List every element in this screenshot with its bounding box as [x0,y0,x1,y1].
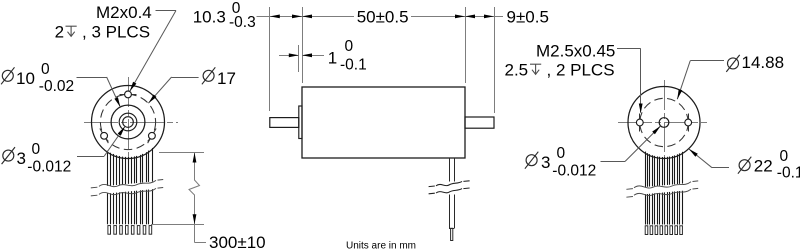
dim 10.3 arrows [270,15,280,19]
extension line shaft end [269,7,271,111]
svg-text:9±0.5: 9±0.5 [507,7,549,26]
svg-text:0: 0 [557,145,566,162]
left view bearing circle [119,113,137,131]
right view horizontal centerline [618,122,710,124]
extension line body rear face [465,7,467,83]
label dia 3 0/-0.012 (right) [526,155,537,166]
dim 10.3 line [257,16,303,18]
svg-text:M2.5x0.45: M2.5x0.45 [536,42,615,61]
left view lead wires (8) [107,151,109,225]
svg-text:-0.012: -0.012 [552,163,596,180]
right view bare wire tips [645,226,648,235]
leader dia 3 to shaft hole [77,156,104,158]
left view bolt circle (dia 17, dashed) [100,94,155,149]
right view M2.5 screw holes (2 plcs) [636,119,643,126]
left view vertical centerline [128,77,130,168]
side view wire break [435,182,463,194]
svg-text:Units are in mm: Units are in mm [346,241,416,250]
svg-text:-0.012: -0.012 [27,159,71,176]
leader M2x0.4 to top hole [156,10,177,12]
leader dia 10 to boss circle [77,77,107,79]
svg-text:22: 22 [754,157,773,176]
svg-text:0: 0 [345,38,354,55]
svg-text:50±0.5: 50±0.5 [357,7,409,26]
dim 1 arrows [289,53,299,57]
svg-text:M2x0.4: M2x0.4 [96,3,152,22]
svg-text:10.3: 10.3 [193,7,226,26]
leader dia 3 to center hole [601,161,626,163]
svg-text:-0.1: -0.1 [777,164,800,181]
300 dim line with break zigzag [189,153,200,225]
dim 50 arrows [302,15,312,19]
right view vertical centerline [664,80,666,178]
dim 9 line [465,16,494,18]
svg-text:2: 2 [55,23,64,42]
side view rear tube [465,117,494,128]
leader dia 17 to bolt circle [172,77,199,79]
extension line boss front face [298,45,300,72]
svg-text:14.88: 14.88 [742,53,785,72]
left view pilot boss (dia 10) [111,105,145,139]
leader dia 14.88 to bolt circle [690,60,724,62]
label dia 22 0/-0.1 [739,160,750,171]
left view shaft hole (dia 3) [123,117,134,128]
svg-text:0: 0 [32,141,41,158]
svg-text:-0.1: -0.1 [340,57,367,74]
svg-text:0: 0 [41,61,50,78]
svg-text:2.5: 2.5 [505,61,529,80]
right view lead wires (8) [645,152,647,225]
svg-text:, 2 PLCS: , 2 PLCS [547,61,615,80]
svg-text:-0.02: -0.02 [39,78,74,95]
label dia 3 0/-0.012 (left) [3,150,14,161]
side view motor body [302,87,465,158]
300 dim top extension line [159,152,204,154]
left view horizontal centerline [84,122,178,124]
300 dim arrows [193,153,197,163]
side view front shaft [270,118,299,128]
svg-text:3: 3 [17,149,26,168]
extension line rear tube end [494,7,496,113]
leader dia 22 to body outline [712,167,729,169]
left view motor body outline (dia 22) [92,86,165,159]
side view front pilot boss (1mm) [299,106,302,139]
left view wire break band [98,181,158,194]
right view motor body outline (dia 22) [628,87,700,159]
left view screw-hole tick marks [120,94,137,96]
svg-text:10: 10 [16,69,35,88]
side view lead wire [449,158,451,182]
dim 9 arrows [465,15,475,19]
label dia 14.88 [728,58,739,69]
label dia 17 [203,70,214,81]
svg-text:, 3 PLCS: , 3 PLCS [82,23,150,42]
leader M2.5x0.45 to left hole [617,48,641,50]
svg-text:0: 0 [780,148,789,165]
left view M2 screw holes (3 plcs) [125,91,132,98]
left view bare wire tips [108,226,111,235]
300 dim tail to text [194,224,196,242]
right view screw-hole tick marks [639,114,641,132]
svg-text:-0.3: -0.3 [229,14,256,31]
label dia 10 0/-0.02 [2,70,13,81]
dim 50 line [302,16,354,18]
dim 1 lines [279,55,299,57]
right view bolt circle (dia 14.88, dashed) [640,98,688,146]
extension line body front face [302,7,304,83]
svg-text:17: 17 [217,69,236,88]
right view shaft hole (dia 3) [659,118,669,128]
svg-text:3: 3 [541,153,550,172]
svg-text:1: 1 [328,49,337,68]
right view wire break band [634,183,693,196]
300 dim bottom extension line [151,224,204,226]
side view bare wire tip [451,228,453,240]
svg-text:300±10: 300±10 [209,233,266,250]
